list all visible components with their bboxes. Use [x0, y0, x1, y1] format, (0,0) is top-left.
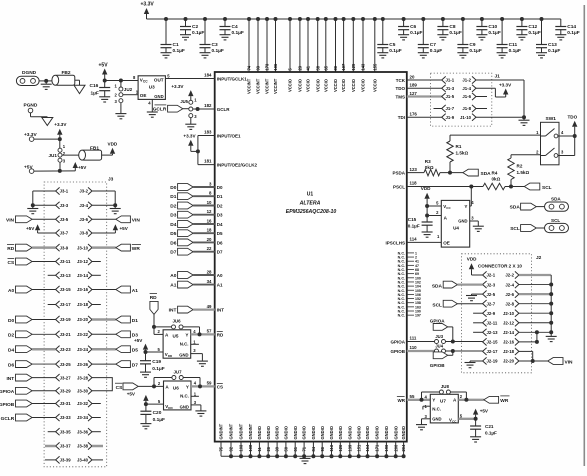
ground: [497, 53, 508, 58]
svg-text:D4: D4: [170, 222, 176, 228]
svg-text:EPM3256AQC208-10: EPM3256AQC208-10: [286, 209, 337, 215]
svg-text:80: 80: [333, 65, 338, 70]
svg-text:J3-17: J3-17: [60, 302, 72, 307]
wire U7 pin1 stub: [423, 406, 430, 409]
U1 top pin labels VCCINT/VCCIO and pin numbers: [247, 63, 378, 94]
svg-text:J3-22: J3-22: [77, 332, 89, 337]
power VDD arrow at U4: [421, 186, 431, 206]
connector J3 2x20 header: [44, 177, 114, 467]
node D3 tag at J3-22: [92, 331, 138, 339]
svg-text:49: 49: [207, 304, 212, 309]
capacitor C21: [470, 424, 497, 437]
ground analog triangle: [74, 85, 85, 93]
svg-text:INT: INT: [6, 376, 14, 382]
svg-text:IPSCLHS: IPSCLHS: [385, 240, 405, 245]
capacitor C5: [377, 17, 401, 54]
svg-text:SDA: SDA: [481, 171, 492, 177]
svg-text:SDA: SDA: [551, 196, 561, 201]
ground: [465, 363, 476, 368]
svg-text:JU5: JU5: [180, 99, 188, 104]
svg-text:J2-20: J2-20: [503, 359, 515, 364]
wire J2-18 to VIN net: [519, 351, 535, 363]
svg-text:INPUT/OE1: INPUT/OE1: [217, 133, 241, 138]
svg-text:41: 41: [306, 65, 311, 70]
wire TDO to J1-3: [407, 87, 442, 89]
capacitor C2: [180, 17, 204, 36]
svg-text:0.1µF: 0.1µF: [192, 30, 204, 36]
svg-text:OUT: OUT: [154, 78, 164, 83]
node SCL tag at J2-7: [432, 300, 482, 308]
svg-text:0.1µF: 0.1µF: [173, 48, 185, 54]
wire J2-14/J2-16 tie: [519, 330, 539, 344]
svg-text:+3.3V: +3.3V: [141, 2, 155, 8]
capacitor C19: [140, 359, 165, 372]
svg-text:ALTERA: ALTERA: [299, 201, 321, 207]
svg-text:GNDINT: GNDINT: [229, 423, 234, 439]
node WR tag: [484, 396, 510, 404]
node D5 tag at J3-24: [92, 346, 138, 354]
svg-text:65: 65: [323, 65, 328, 70]
power +3.3V rail arrow: [141, 2, 155, 20]
svg-text:C12: C12: [528, 24, 537, 30]
wire TMS to J1-5: [407, 95, 442, 97]
wire RD to U5 A input: [152, 325, 163, 335]
svg-text:R4: R4: [492, 171, 498, 176]
svg-text:125: 125: [351, 63, 356, 71]
capacitor C12: [516, 17, 540, 36]
ground: [398, 35, 409, 40]
svg-text:93: 93: [256, 65, 261, 70]
svg-text:WR: WR: [398, 398, 406, 403]
ground: [161, 53, 172, 58]
svg-text:1.5kΩ: 1.5kΩ: [456, 150, 469, 155]
buffer U5: [157, 329, 198, 358]
wire J2-19 to ground: [470, 361, 483, 362]
svg-text:GNDIO: GNDIO: [293, 425, 298, 439]
svg-text:59: 59: [207, 380, 212, 385]
node D6 tag at J3-25: [8, 361, 56, 369]
svg-text:VCCINT: VCCINT: [265, 78, 270, 94]
wire J3-13 stub: [48, 274, 56, 276]
svg-text:22: 22: [207, 246, 212, 251]
svg-text:0.1µF: 0.1µF: [449, 30, 461, 36]
svg-text:D1: D1: [170, 194, 176, 200]
svg-text:J3-26: J3-26: [77, 362, 89, 367]
svg-text:C10: C10: [488, 24, 497, 30]
capacitor C15: [408, 217, 433, 232]
svg-text:0.1µF: 0.1µF: [153, 417, 165, 423]
capacitor C3: [200, 17, 224, 54]
svg-text:D6: D6: [8, 363, 14, 369]
svg-text:VCCIO: VCCIO: [323, 78, 328, 92]
wire SW1 pin4/pin3: [558, 134, 577, 156]
U1 GPIOB pin 110: [390, 345, 417, 354]
power +3.3V arrow at JU1: [54, 122, 67, 139]
svg-text:55: 55: [410, 394, 415, 399]
node A0 tag at J3-15: [8, 286, 56, 294]
ground: [115, 114, 126, 119]
svg-text:C16: C16: [90, 83, 99, 89]
svg-text:+3.3V: +3.3V: [499, 83, 512, 88]
svg-text:J2-10: J2-10: [503, 311, 515, 316]
svg-text:0.1µF: 0.1µF: [509, 48, 521, 54]
svg-text:GNDIO: GNDIO: [311, 425, 316, 439]
svg-text:J3-20: J3-20: [77, 317, 89, 322]
svg-text:0kΩ: 0kΩ: [425, 165, 434, 170]
wire J3-38 stub: [92, 445, 103, 448]
svg-text:J3-24: J3-24: [77, 347, 89, 352]
svg-text:J3-38: J3-38: [77, 444, 89, 449]
svg-text:VCCIO: VCCIO: [341, 78, 346, 92]
node GPIOA tag at J3-29: [0, 387, 56, 395]
svg-text:J3-23: J3-23: [60, 347, 72, 352]
svg-text:20: 20: [410, 74, 415, 79]
node GPIOB tag: [430, 351, 453, 368]
svg-text:J2-18: J2-18: [503, 349, 515, 354]
svg-text:VCCIO: VCCIO: [361, 78, 366, 92]
svg-text:D5: D5: [217, 231, 223, 236]
wire +5V to U3 VCC: [103, 79, 138, 83]
capacitor C8: [437, 17, 461, 36]
svg-text:J3-34: J3-34: [77, 415, 89, 420]
ground: [140, 372, 151, 377]
svg-text:GNDIO: GNDIO: [257, 425, 262, 439]
ground: [180, 35, 191, 40]
svg-text:C3: C3: [212, 42, 218, 48]
node D2 tag to U1 pin 10: [170, 200, 223, 210]
svg-text:GND: GND: [154, 94, 163, 99]
svg-text:J1-9: J1-9: [446, 115, 455, 120]
svg-text:SCL: SCL: [432, 302, 442, 308]
svg-text:197: 197: [415, 314, 421, 318]
svg-text:J3-31: J3-31: [60, 401, 72, 406]
ground: [437, 35, 448, 40]
wire U1 IPSCLHS pin 114 to U4 OE: [385, 237, 441, 246]
svg-text:0.1µF: 0.1µF: [567, 30, 579, 36]
svg-text:J3-13: J3-13: [60, 273, 72, 278]
svg-text:CS: CS: [8, 260, 15, 266]
U1 PSCL pin 118 label: [393, 181, 417, 190]
svg-text:GPIOA: GPIOA: [0, 389, 15, 395]
node D4 tag at J3-23: [8, 346, 56, 354]
svg-text:D3: D3: [170, 213, 176, 219]
svg-text:J2-12: J2-12: [503, 320, 515, 325]
svg-text:VCCIO: VCCIO: [351, 78, 356, 92]
svg-text:GNDIO: GNDIO: [375, 425, 380, 439]
wire TDI to J1-9: [407, 116, 442, 118]
power +3.3V arrow at J1-4: [476, 83, 512, 97]
svg-text:GNDIO: GNDIO: [393, 425, 398, 439]
power +3.3V arrow at JU5: [171, 84, 193, 100]
svg-text:GCLR: GCLR: [1, 416, 15, 422]
node INT tag at J3-27: [6, 374, 55, 382]
svg-text:GNDIO: GNDIO: [347, 425, 352, 439]
node SDA tag at J2-3: [432, 281, 483, 289]
resistor R2: [508, 155, 541, 187]
ic U4: [436, 200, 474, 247]
svg-text:173: 173: [265, 63, 270, 71]
svg-text:VCCIO: VCCIO: [288, 78, 293, 92]
ground: [220, 35, 231, 40]
wire J3-2/J3-4 to ground: [92, 191, 117, 208]
svg-text:R2: R2: [517, 164, 523, 169]
svg-text:0.1µF: 0.1µF: [430, 48, 442, 54]
wire J1-6 stub: [476, 96, 487, 98]
wire U6 GND pin 3: [191, 405, 201, 411]
svg-text:D2: D2: [8, 333, 14, 339]
node D7 tag to U1 pin 22: [170, 246, 223, 256]
U1 WR pin 55: [397, 394, 415, 403]
ground: [457, 53, 468, 58]
svg-text:J2-8: J2-8: [505, 301, 514, 306]
svg-text:+5V: +5V: [480, 408, 489, 413]
svg-text:111: 111: [410, 336, 417, 341]
svg-text:VCCIO: VCCIO: [298, 78, 303, 92]
power +5V arrow at oscillator: [99, 63, 109, 81]
svg-text:J3-25: J3-25: [60, 362, 72, 367]
ground: [476, 35, 487, 40]
terminal SCL: [545, 218, 569, 233]
svg-text:A1: A1: [217, 283, 223, 288]
wire J2-9 stub: [473, 312, 483, 314]
svg-text:D4: D4: [8, 348, 14, 354]
svg-text:RD: RD: [217, 332, 224, 337]
svg-text:D6: D6: [170, 240, 176, 246]
svg-text:A1: A1: [170, 283, 176, 289]
svg-text:176: 176: [410, 112, 418, 117]
svg-text:Y: Y: [186, 384, 189, 389]
svg-text:D1: D1: [132, 318, 138, 324]
ground: [200, 53, 211, 58]
resistor R4: [483, 171, 505, 190]
svg-text:J1-10: J1-10: [460, 115, 472, 120]
svg-text:114: 114: [410, 237, 418, 242]
terminal SDA: [545, 196, 569, 211]
svg-text:0.1µF: 0.1µF: [232, 30, 244, 36]
wire U1 ground bus: [221, 442, 406, 459]
svg-text:D0: D0: [217, 185, 223, 190]
svg-text:C13: C13: [548, 42, 557, 48]
terminal DGND: [16, 70, 39, 85]
svg-text:J3-32: J3-32: [77, 401, 89, 406]
svg-text:J2-16: J2-16: [503, 340, 515, 345]
svg-text:1.5kΩ: 1.5kΩ: [517, 170, 530, 175]
svg-text:GNDIO: GNDIO: [329, 425, 334, 439]
svg-text:SCL: SCL: [542, 185, 552, 191]
svg-text:D0: D0: [170, 185, 176, 191]
ground analog triangle: [42, 118, 53, 126]
ground: [99, 97, 110, 102]
power +5V arrow at J3-8: [92, 224, 129, 233]
svg-text:C15: C15: [408, 217, 417, 222]
svg-text:J3-19: J3-19: [60, 317, 72, 322]
power +3.3V arrow at OE pins: [183, 134, 197, 152]
svg-text:C7: C7: [430, 42, 436, 48]
svg-text:D2: D2: [170, 204, 176, 210]
svg-text:U3: U3: [149, 85, 155, 90]
ground: [422, 232, 433, 237]
svg-text:D5: D5: [132, 348, 138, 354]
ground: [516, 35, 527, 40]
svg-text:+5V: +5V: [78, 165, 87, 170]
svg-text:VDD: VDD: [108, 142, 118, 147]
wire PSDA to SDA tag: [440, 171, 463, 175]
node GPIOB tag at J3-31: [0, 400, 56, 408]
svg-text:J3-3: J3-3: [60, 203, 69, 208]
svg-text:J3-18: J3-18: [77, 302, 89, 307]
svg-text:SDA: SDA: [432, 283, 443, 289]
node GCLR tag at J3-33: [1, 414, 56, 422]
wire J3-35 stub: [48, 431, 56, 433]
svg-text:106: 106: [273, 63, 278, 71]
svg-text:DGND: DGND: [22, 70, 37, 76]
svg-text:VDD: VDD: [421, 186, 431, 191]
wire J3-40 stub: [92, 459, 103, 461]
svg-text:R1: R1: [456, 144, 462, 149]
jumper JU7: [152, 369, 200, 388]
wire FB2 to analog ground: [75, 80, 80, 85]
connector J2 2x10 header: [462, 254, 542, 373]
svg-text:GNDINT: GNDINT: [239, 423, 244, 439]
svg-text:GNDIO: GNDIO: [365, 425, 370, 439]
U1 N.C. pins: [398, 251, 421, 317]
svg-text:VCCIO: VCCIO: [372, 78, 377, 92]
svg-text:TDO: TDO: [568, 114, 578, 119]
capacitor C10: [476, 17, 500, 36]
svg-text:+5V: +5V: [120, 226, 129, 231]
wire VCC drops from +3.3V rail to U1 top pins: [247, 17, 377, 72]
svg-text:C2: C2: [192, 24, 198, 30]
svg-text:J3-14: J3-14: [77, 273, 89, 278]
node D1 tag at J3-20: [92, 316, 138, 324]
svg-text:J3-2: J3-2: [79, 189, 88, 194]
wire J3-36 stub: [92, 431, 101, 433]
capacitor C7: [418, 17, 442, 54]
ground: [140, 424, 151, 429]
wire J3-39 stub: [45, 459, 56, 461]
connector J1 JTAG header: [431, 73, 501, 126]
ground: [147, 112, 158, 117]
wire U4 VCC/A node: [425, 204, 441, 222]
svg-text:TDO: TDO: [396, 86, 406, 91]
node SCL tag to terminal: [510, 225, 544, 232]
ground: [416, 425, 427, 430]
svg-text:J2-4: J2-4: [505, 282, 514, 287]
node D2 tag at J3-21: [8, 331, 56, 339]
wire J2-20 to VIN tag: [519, 360, 548, 362]
node A1 tag at J3-16: [92, 286, 138, 294]
ground: [418, 53, 429, 58]
svg-text:J3-5: J3-5: [60, 217, 69, 222]
svg-text:0.1µF: 0.1µF: [485, 430, 497, 435]
svg-text:J3-16: J3-16: [77, 287, 89, 292]
switch SW1: [536, 116, 564, 165]
svg-text:C6: C6: [410, 24, 416, 30]
wire U4 GND pin3: [470, 221, 479, 226]
svg-text:110: 110: [410, 345, 418, 350]
wire U3 OUT to U1 INPUT/GCLK1 pin 184: [165, 73, 214, 79]
svg-text:VCCINT: VCCINT: [273, 78, 278, 94]
power +5V arrow at JU1: [73, 162, 88, 171]
ground: [466, 296, 477, 301]
node SCL tag: [524, 183, 551, 191]
svg-text:C14: C14: [567, 24, 576, 30]
wire R4 to SCL tag: [505, 185, 524, 189]
svg-text:J1-8: J1-8: [462, 106, 471, 111]
ground: [195, 411, 206, 416]
svg-text:A0: A0: [170, 273, 176, 279]
svg-text:JU2: JU2: [124, 87, 133, 92]
svg-text:189: 189: [410, 83, 418, 88]
svg-text:+3.3V: +3.3V: [171, 84, 184, 89]
wire U5 Y to U1 RD pin 57: [191, 328, 224, 337]
svg-text:23: 23: [298, 65, 303, 70]
svg-text:155: 155: [372, 63, 377, 71]
svg-text:C20: C20: [153, 410, 162, 416]
svg-text:JU6: JU6: [172, 319, 181, 324]
svg-text:C21: C21: [485, 424, 494, 429]
svg-text:JU3: JU3: [435, 334, 443, 339]
jumper JU8: [422, 384, 467, 400]
power +5V arrow at U6: [127, 391, 149, 404]
svg-text:+5V: +5V: [127, 391, 136, 396]
capacitor C6: [398, 17, 422, 36]
svg-text:J1-3: J1-3: [446, 86, 455, 91]
node D1 tag to U1 pin 8: [170, 191, 223, 201]
wire J3-32 stub: [92, 403, 101, 405]
svg-text:N.C.: N.C.: [432, 406, 441, 411]
wire J3-14 stub: [92, 274, 101, 276]
svg-text:J3-33: J3-33: [60, 415, 72, 420]
svg-text:OE: OE: [140, 93, 147, 98]
svg-text:J1: J1: [495, 74, 501, 80]
svg-text:GNDIO: GNDIO: [384, 425, 389, 439]
svg-text:J3-15: J3-15: [60, 287, 72, 292]
wire OE1/OE2 tie: [196, 130, 215, 165]
svg-text:J3-29: J3-29: [60, 389, 72, 394]
svg-text:107: 107: [341, 63, 346, 71]
svg-text:SCL: SCL: [551, 218, 560, 223]
svg-text:+5V: +5V: [99, 63, 109, 69]
wire J3-1/J3-3 to ground: [31, 191, 56, 208]
node D0 tag at J3-19: [8, 316, 56, 324]
svg-text:D0: D0: [8, 318, 14, 324]
svg-text:0.1µF: 0.1µF: [548, 48, 560, 54]
svg-text:D7: D7: [132, 363, 138, 369]
capacitor C14: [555, 19, 579, 36]
jumper JU4: [407, 343, 483, 353]
svg-text:J1-4: J1-4: [462, 86, 471, 91]
svg-text:SW1: SW1: [546, 116, 557, 122]
svg-text:J2-3: J2-3: [487, 282, 496, 287]
svg-text:118: 118: [410, 181, 418, 186]
wire U7 VCC pin5: [458, 417, 477, 426]
svg-text:J1-5: J1-5: [446, 94, 455, 99]
node RD vertical tag: [150, 293, 159, 334]
svg-text:SCL: SCL: [510, 226, 520, 232]
page right border line: [583, 5, 585, 466]
svg-text:VIN: VIN: [6, 218, 15, 224]
wire TCK to J1-1: [407, 79, 442, 81]
ground: [110, 209, 121, 214]
svg-text:J3-28: J3-28: [77, 375, 89, 380]
svg-text:C8: C8: [449, 24, 455, 30]
svg-text:J3-36: J3-36: [77, 429, 89, 434]
svg-text:J3-9: J3-9: [60, 245, 69, 250]
node D5 tag to U1 pin 18: [170, 228, 223, 238]
svg-text:J2-9: J2-9: [487, 311, 496, 316]
svg-text:U5: U5: [173, 334, 179, 339]
